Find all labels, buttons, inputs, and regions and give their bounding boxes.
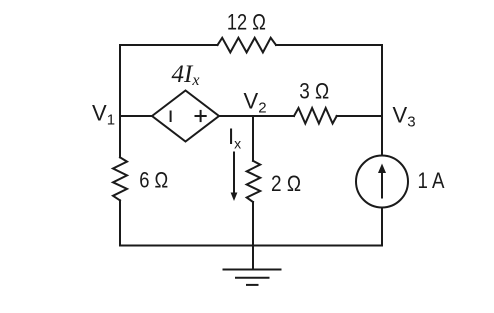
resistor R 6 ohm [113,157,127,200]
svg-text:V1: V1 [92,101,115,129]
wire dependent source to node V2 and on to 3-ohm [219,115,294,117]
svg-text:6 Ω: 6 Ω [139,168,168,193]
wire right vertical lower (current source to bottom rail) [381,208,383,246]
ground [252,246,254,270]
wire top-right (12-ohm to node V3) [276,44,382,46]
resistor R 12 ohm [218,38,277,53]
current source arrow [381,171,383,198]
minus terminal mark inside diamond [170,112,172,122]
plus terminal mark inside diamond [196,115,206,117]
wire middle vertical upper (V2 to 2-ohm) [252,116,254,161]
svg-text:2 Ω: 2 Ω [271,171,301,196]
svg-text:4Ix: 4Ix [172,61,200,89]
wire top-left (node V1 to 12-ohm) [120,44,218,46]
wire V1 to dependent source [120,115,152,117]
current source I1 (1 A circle) [356,156,408,208]
dependent source U1 (diamond, 4Ix) [152,91,219,142]
wire right vertical upper (top rail to current source) [381,45,383,156]
resistor R 3 ohm [294,108,337,124]
svg-text:Ix: Ix [228,124,241,152]
svg-text:3 Ω: 3 Ω [299,79,329,104]
resistor R 2 ohm [247,161,261,202]
svg-text:1 A: 1 A [418,168,445,193]
wire bottom rail [120,245,382,247]
wire left vertical upper (top rail to 6-ohm) [119,45,121,157]
svg-text:12 Ω: 12 Ω [227,9,266,34]
svg-text:V2: V2 [244,89,267,117]
svg-text:V3: V3 [393,103,416,131]
current Ix arrow [233,153,235,195]
wire middle vertical lower (2-ohm to bottom rail) [252,202,254,246]
wire left vertical lower (6-ohm to bottom rail) [119,200,121,245]
wire 3-ohm to node V3 [337,115,382,117]
